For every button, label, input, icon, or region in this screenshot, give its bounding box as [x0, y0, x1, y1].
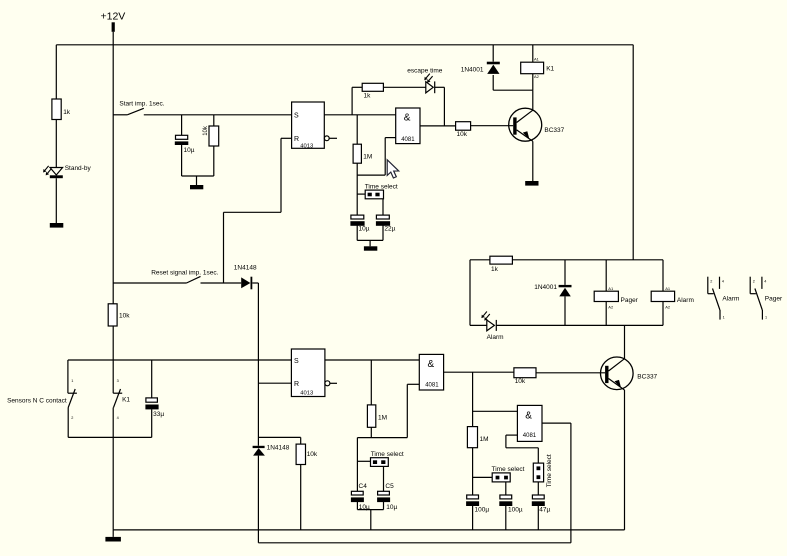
resistor R10 1M: [467, 427, 488, 448]
svg-text:S: S: [294, 358, 299, 365]
wire jumper J2 feed: [357, 460, 370, 462]
diode D4 1N4148: [234, 265, 257, 290]
jumper J4 Time select vertical: [533, 454, 553, 487]
wire up to U4 lower input: [406, 384, 408, 437]
wire U5 output right: [542, 422, 571, 424]
resistor R8 10k: [296, 444, 318, 464]
transistor Q2 BC337: [601, 357, 658, 390]
wire 1N4001 top drop: [492, 45, 494, 62]
diode D5 1N4148: [253, 445, 290, 456]
ground below LED1: [50, 223, 64, 228]
wire main +12V rail top (x=113): [112, 32, 114, 304]
svg-text:K1: K1: [546, 66, 554, 73]
op-amp U1 4013 flip-flop: [292, 102, 337, 149]
wire C6 33u drop: [151, 360, 153, 398]
wire down to C4 column: [356, 438, 358, 492]
wire U4 output to R7: [444, 371, 514, 373]
wire to R3 left: [352, 86, 362, 88]
wire rail to bottom bus: [112, 437, 114, 530]
svg-text:R: R: [294, 136, 299, 143]
wire R2 branch drop: [213, 115, 215, 126]
svg-text:BC337: BC337: [544, 127, 564, 134]
ground below C1/R2: [190, 185, 203, 189]
wire R2 bottom: [213, 146, 215, 176]
resistor R2 10k: [203, 125, 219, 146]
svg-text:Start imp. 1sec.: Start imp. 1sec.: [119, 101, 164, 108]
capacitor C9 47u: [532, 495, 551, 514]
svg-text:Reset signal imp. 1sec.: Reset signal imp. 1sec.: [151, 270, 218, 277]
wire K2 A2 pin: [605, 302, 607, 326]
switch Reset signal imp. 1sec: [113, 270, 218, 283]
svg-text:Time select: Time select: [371, 451, 404, 458]
relay K2 Pager coil: [594, 286, 638, 309]
jumper J3 Time select: [492, 466, 525, 482]
wire K3 A2 pin: [662, 302, 664, 326]
wire C1 to gnd bar: [181, 144, 183, 176]
svg-text:4: 4: [117, 416, 119, 420]
svg-text:10k: 10k: [203, 125, 209, 136]
svg-text:100µ: 100µ: [475, 507, 490, 514]
wire K3 A1 pin: [662, 260, 664, 291]
wire corner down to gate output node: [443, 87, 445, 126]
svg-text:K1: K1: [122, 397, 130, 404]
wire Q1 collector up: [532, 90, 534, 110]
svg-text:3: 3: [117, 379, 119, 383]
wire C5 bottom: [383, 501, 385, 509]
svg-text:1N4148: 1N4148: [234, 265, 257, 272]
ground main bottom: [105, 537, 121, 542]
wire branch to U2 lower input: [357, 138, 396, 176]
wire branch down to R4 1M: [356, 115, 358, 144]
svg-text:Sensors N C contact: Sensors N C contact: [7, 398, 67, 405]
wire R8 top stub: [300, 437, 302, 444]
svg-text:4081: 4081: [401, 137, 415, 143]
wire right rail down from top bus: [632, 45, 634, 260]
svg-text:1M: 1M: [480, 436, 489, 443]
svg-text:4081: 4081: [425, 383, 439, 389]
LED D6 Alarm: [481, 312, 503, 341]
wire D5 anode down: [257, 456, 259, 543]
svg-text:47µ: 47µ: [539, 507, 550, 514]
wire D4 cathode to corner: [252, 282, 258, 284]
capacitor C8 100u: [499, 495, 523, 514]
svg-text:A1: A1: [534, 57, 540, 62]
svg-text:&: &: [428, 359, 435, 370]
LED D1 Stand-by: [43, 165, 91, 178]
wire rail R9 to sensors bus: [112, 326, 114, 360]
wire LED2 to corner: [435, 86, 445, 88]
svg-text:1N4148: 1N4148: [267, 445, 290, 452]
wire U5 output return (y=543): [258, 542, 571, 544]
wire gnd stem: [196, 176, 198, 185]
capacitor C1 10u: [175, 135, 195, 154]
wire J1 right pin down: [382, 199, 384, 215]
svg-text:C4: C4: [359, 483, 368, 490]
resistor R11 1k: [490, 256, 513, 273]
svg-text:Alarm: Alarm: [677, 297, 694, 304]
wire branch up to R3: [351, 87, 353, 115]
op-amp U5 4081 AND gate: [517, 405, 542, 441]
wire vertical reset bus (x=258): [257, 283, 259, 446]
wire C2-C3 common: [357, 239, 383, 241]
svg-text:&: &: [404, 113, 411, 124]
wire R6 bottom: [370, 427, 372, 437]
svg-text:A2: A2: [608, 305, 614, 310]
wire D7 top drop: [564, 260, 566, 285]
resistor R3 1k: [362, 83, 383, 99]
svg-text:1: 1: [765, 315, 767, 319]
wire left drop to R1: [55, 45, 57, 99]
wire K1 A2 pin: [532, 74, 534, 91]
svg-text:+12V: +12V: [101, 11, 126, 23]
svg-text:&: &: [525, 410, 532, 421]
svg-text:2: 2: [753, 279, 755, 283]
ground below C2/C3: [364, 246, 377, 250]
wire D3 bottom: [492, 75, 494, 90]
wire branch to U5 upper input: [473, 410, 518, 412]
capacitor C4 10u: [351, 483, 370, 511]
wire R7 to Q2 base: [536, 372, 605, 374]
svg-text:Time select: Time select: [365, 184, 398, 191]
svg-text:Alarm: Alarm: [722, 295, 739, 302]
wire C4/C5 stem to bus: [370, 510, 372, 530]
op-amp U4 4081 AND gate: [419, 354, 443, 390]
svg-text:10k: 10k: [457, 131, 468, 138]
capacitor C6 33u: [145, 398, 164, 418]
resistor R5 10k: [456, 122, 471, 138]
wire Q2 collector up: [624, 325, 626, 358]
jumper J1 Time select: [365, 184, 398, 199]
svg-text:Time select: Time select: [492, 466, 525, 473]
svg-text:S: S: [294, 112, 299, 119]
capacitor C3 22u: [376, 215, 396, 233]
svg-text:10k: 10k: [307, 451, 318, 458]
svg-text:1k: 1k: [63, 109, 71, 116]
wire sensors bottom bus: [68, 436, 152, 438]
wire relay block top (y=260): [470, 259, 663, 261]
svg-text:1: 1: [723, 315, 725, 319]
wire main gnd stem: [112, 530, 114, 537]
wire K2 A1 pin: [605, 260, 607, 291]
wire bottom ground bus (y=530): [113, 529, 624, 531]
wire Q2 emitter down to bus: [624, 390, 626, 530]
svg-text:33µ: 33µ: [153, 411, 164, 418]
relay K1 coil: [521, 57, 555, 79]
switch sensors NC contact: [7, 360, 77, 437]
wire U2 output to R5: [420, 125, 456, 127]
svg-text:10µ: 10µ: [184, 147, 195, 154]
wire R10 bottom to C7: [472, 448, 474, 495]
wire C3 bottom: [382, 225, 384, 240]
svg-text:A2: A2: [534, 74, 540, 79]
wire R3 to LED2: [383, 86, 425, 88]
wire C4-C5 common: [357, 509, 383, 511]
svg-text:Pager: Pager: [765, 295, 783, 302]
wire Q1 emitter down: [532, 141, 534, 181]
svg-text:A2: A2: [665, 305, 671, 310]
wire U1 Q output (y=115): [324, 114, 395, 116]
svg-text:1k: 1k: [491, 266, 499, 273]
svg-text:4: 4: [764, 279, 766, 283]
resistor R9 10k on rail: [108, 304, 130, 326]
wire LED1 to ground: [55, 178, 57, 223]
transistor Q1 BC337: [509, 108, 565, 141]
svg-text:escape time: escape time: [407, 68, 442, 75]
jumper J2 Time select: [371, 451, 404, 467]
wire R6 bottom node horizontal: [357, 437, 407, 439]
op-amp U3 4013 flip-flop: [291, 349, 337, 397]
svg-text:1M: 1M: [363, 154, 372, 161]
wire sensors top bus to U3 S (y=360): [68, 359, 292, 361]
wire U4 lower input stub: [407, 383, 419, 385]
wire R5 to Q1 base: [471, 125, 514, 127]
LED D2 escape time: [407, 68, 442, 94]
wire jumper J3 feed: [473, 476, 493, 478]
wire gnd stem timing: [369, 240, 371, 246]
wire to LED3 anode: [470, 324, 487, 326]
svg-text:1k: 1k: [364, 93, 372, 100]
svg-text:A1: A1: [665, 286, 671, 291]
wire C1-R2 common bottom: [182, 175, 214, 177]
wire start switch to U1 S input (y=115): [144, 114, 292, 116]
svg-text:4013: 4013: [300, 391, 313, 397]
wire R8 bottom to bus: [300, 465, 302, 530]
power +12V terminal tick: [112, 22, 115, 32]
wire U3 Q output (y=360): [325, 359, 419, 361]
resistor R6 1M: [367, 405, 387, 427]
svg-text:Alarm: Alarm: [487, 334, 504, 341]
switch Start imp. 1sec: [113, 101, 165, 115]
wire U1 R input path: [224, 138, 292, 283]
wire R4 bottom to cap C2: [356, 163, 358, 215]
capacitor C2 10u: [350, 215, 369, 233]
wire C2 bottom: [356, 225, 358, 240]
resistor R1 1k: [52, 99, 71, 120]
svg-text:A1: A1: [608, 286, 614, 291]
svg-text:1M: 1M: [378, 415, 387, 422]
wire U4 output branch down: [472, 372, 474, 426]
svg-text:2: 2: [710, 279, 712, 283]
wire C8 to bus: [505, 505, 507, 530]
resistor R4 1M: [353, 144, 372, 163]
wire R1 to LED1: [55, 120, 57, 168]
wire J2 right pin down to C5: [383, 466, 385, 491]
wire branch to R8 10k top: [258, 436, 300, 438]
svg-text:Time select: Time select: [546, 454, 553, 487]
capacitor C5 10u: [377, 483, 397, 511]
svg-text:22µ: 22µ: [384, 226, 395, 233]
svg-text:4081: 4081: [523, 433, 537, 439]
svg-text:10k: 10k: [119, 312, 130, 319]
svg-text:10k: 10k: [515, 378, 526, 385]
wire U5 output down: [570, 423, 572, 543]
wire reset switch to D4: [201, 282, 242, 284]
wire top horizontal +12V bus (y=45): [56, 44, 633, 46]
svg-text:Pager: Pager: [621, 297, 639, 304]
wire C4 bottom: [356, 501, 358, 509]
wire relay block bottom (y=325): [496, 324, 663, 326]
wire J4 bottom pin to C9: [537, 482, 539, 495]
svg-text:4013: 4013: [300, 143, 313, 149]
wire C6 bottom: [151, 409, 153, 437]
wire D3 to K1 bottom node: [493, 89, 533, 91]
wire J3 right pin down to C8: [505, 482, 507, 495]
wire jumper J1 feed: [357, 193, 365, 195]
op-amp U2 4081 AND gate: [396, 108, 420, 144]
svg-text:4: 4: [722, 279, 724, 283]
switch Pager output contact: [750, 277, 783, 320]
svg-text:2: 2: [71, 416, 73, 420]
svg-text:1: 1: [71, 379, 73, 383]
wire U5 lower input path: [506, 435, 538, 463]
ground below Q1: [525, 181, 538, 186]
svg-text:1N4001: 1N4001: [534, 284, 557, 291]
wire relay block left drop: [469, 260, 471, 326]
wire D7 bottom: [564, 296, 566, 325]
capacitor C7 100u: [466, 495, 489, 514]
wire branch down to R6 1M: [370, 360, 372, 405]
resistor R7 10k: [514, 368, 536, 385]
wire C9 to bus: [537, 505, 539, 530]
svg-text:10µ: 10µ: [386, 504, 397, 511]
svg-text:BC337: BC337: [637, 373, 657, 380]
mouse cursor: [387, 160, 399, 178]
wire branch to U3 R input: [258, 382, 291, 384]
svg-text:R: R: [294, 381, 299, 388]
svg-text:10µ: 10µ: [359, 226, 370, 233]
svg-text:Stand-by: Stand-by: [65, 165, 92, 172]
svg-text:C5: C5: [385, 483, 394, 490]
svg-text:100µ: 100µ: [508, 507, 523, 514]
diode D7 1N4001: [534, 284, 571, 296]
svg-text:1N4001: 1N4001: [461, 66, 484, 73]
diode D3 1N4001: [461, 62, 500, 74]
wire C1 branch drop: [181, 115, 183, 136]
wire C7 to bus: [472, 505, 474, 530]
relay K3 Alarm coil: [651, 286, 694, 309]
wire K1 A1 pin: [532, 45, 534, 62]
switch Alarm output contact: [708, 277, 740, 320]
switch K1 contact: [113, 360, 130, 437]
